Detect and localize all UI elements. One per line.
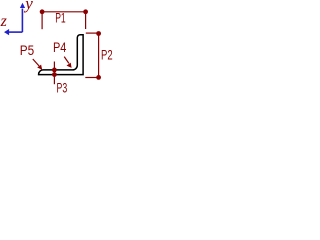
svg-text:P4: P4 <box>53 39 67 55</box>
svg-text:y: y <box>23 0 33 13</box>
svg-text:P3: P3 <box>57 80 68 96</box>
svg-text:P2: P2 <box>101 47 113 63</box>
svg-text:z: z <box>0 13 8 30</box>
svg-text:P5: P5 <box>20 42 35 58</box>
svg-text:P1: P1 <box>55 10 66 26</box>
